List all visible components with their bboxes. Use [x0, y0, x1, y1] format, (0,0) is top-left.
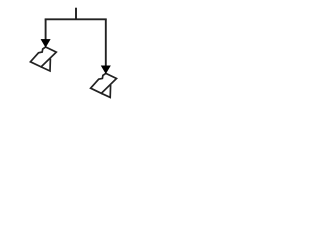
- background: [0, 0, 150, 108]
- wire: left drop: [45, 19, 47, 42]
- arrowhead into left pin: [41, 39, 50, 47]
- node: center terminal stub: [75, 8, 77, 20]
- wire: top rail: [45, 18, 107, 20]
- right pushpin symbol: [91, 73, 117, 97]
- wire: right drop: [105, 19, 107, 68]
- left pushpin symbol: [30, 47, 56, 71]
- arrowhead into right pin: [101, 66, 110, 74]
